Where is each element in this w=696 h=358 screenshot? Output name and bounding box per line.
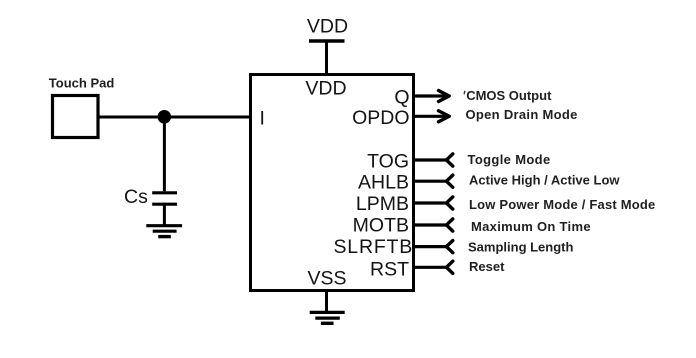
pin label Q	[394, 86, 409, 108]
pin label OPDO	[352, 107, 409, 129]
input arrow AHLB	[415, 175, 453, 187]
touch pad electrode	[53, 96, 99, 138]
svg-text:RST: RST	[370, 258, 409, 280]
annotation Reset	[469, 259, 505, 274]
annotation Open Drain Mode	[466, 107, 578, 122]
input arrow SLRFTB	[415, 241, 453, 253]
svg-text:Q: Q	[394, 86, 409, 108]
pin label AHLB	[358, 171, 409, 193]
svg-text:VSS: VSS	[307, 268, 346, 290]
svg-text:Reset: Reset	[469, 259, 505, 274]
pin label VSS (inside bottom)	[307, 268, 346, 290]
value label Cs	[124, 186, 148, 208]
pin label VDD (inside top)	[305, 78, 346, 100]
touch pad label	[49, 76, 115, 91]
wire IC VSS to ground	[325, 290, 328, 312]
pin label SLRFTB	[334, 236, 414, 258]
pin label RST	[370, 258, 409, 280]
ground (below Cs)	[146, 226, 182, 237]
capacitor Cs	[152, 193, 177, 204]
svg-text:OPDO: OPDO	[352, 107, 409, 129]
input arrow LPMB	[415, 197, 453, 209]
power VDD rail symbol	[307, 16, 348, 41]
annotation Sampling Length	[468, 240, 574, 255]
svg-text:VDD: VDD	[305, 78, 346, 100]
input arrow TOG	[415, 154, 453, 166]
svg-text:Low Power Mode / Fast Mode: Low Power Mode / Fast Mode	[469, 197, 656, 212]
output arrow Q	[415, 91, 449, 102]
svg-text:Maximum On Time: Maximum On Time	[471, 219, 591, 234]
svg-text:Active High / Active Low: Active High / Active Low	[469, 173, 620, 188]
svg-text:Touch Pad: Touch Pad	[49, 76, 115, 91]
pin label LPMB	[356, 193, 409, 215]
input arrow RST	[415, 261, 453, 273]
pin label I (input)	[260, 107, 265, 129]
svg-text:Sampling Length: Sampling Length	[468, 240, 574, 255]
ground (below VSS)	[310, 312, 345, 323]
output arrow OPDO	[415, 111, 449, 122]
svg-text:Open Drain Mode: Open Drain Mode	[466, 107, 578, 122]
wire junction to capacitor	[163, 117, 166, 191]
svg-text:SLRFTB: SLRFTB	[334, 236, 414, 258]
annotation Maximum On Time	[471, 219, 591, 234]
svg-text:Toggle Mode: Toggle Mode	[468, 152, 551, 167]
node junction (pad / Cs / I)	[158, 110, 172, 124]
annotation Toggle Mode	[468, 152, 551, 167]
svg-text:CMOS Output: CMOS Output	[466, 88, 552, 103]
wire touch pad to IC pin I	[98, 116, 250, 119]
svg-text:AHLB: AHLB	[358, 171, 409, 193]
wire capacitor to ground	[163, 205, 166, 226]
annotation CMOS Output	[464, 88, 552, 103]
svg-text:TOG: TOG	[367, 151, 409, 173]
svg-text:I: I	[260, 107, 265, 129]
IC U1 body	[251, 75, 414, 291]
annotation Active High / Active Low	[469, 173, 620, 188]
annotation Low Power Mode / Fast Mode	[469, 197, 656, 212]
wire VDD rail to IC top	[325, 41, 328, 76]
pin label TOG	[367, 151, 409, 173]
svg-text:MOTB: MOTB	[353, 215, 409, 237]
svg-text:LPMB: LPMB	[356, 193, 409, 215]
svg-text:Cs: Cs	[124, 186, 148, 208]
svg-text:VDD: VDD	[307, 16, 348, 38]
pin label MOTB	[353, 215, 409, 237]
input arrow MOTB	[415, 219, 453, 231]
